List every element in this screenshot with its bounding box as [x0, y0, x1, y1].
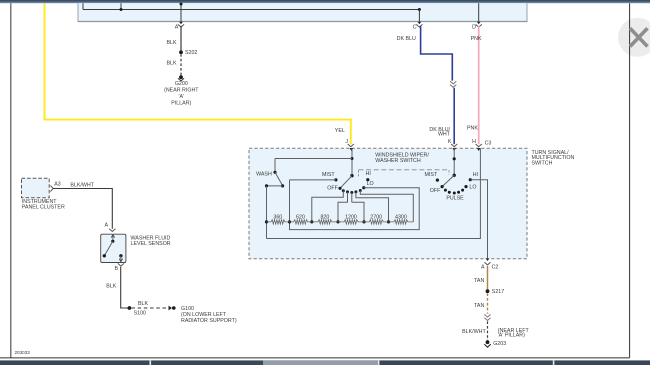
LO contact [464, 185, 467, 188]
junction node on bus [120, 8, 123, 11]
svg-text:MIST: MIST [322, 172, 335, 178]
page left border [10, 3, 12, 358]
svg-text:HI: HI [366, 171, 371, 177]
svg-text:DK BLU: DK BLU [397, 36, 416, 42]
MIST contact [334, 178, 337, 181]
svg-text:S100: S100 [134, 310, 146, 316]
close button X icon [630, 28, 648, 46]
svg-text:MIST: MIST [425, 172, 438, 178]
wiper mode switch pivot [350, 174, 353, 177]
svg-text:620: 620 [296, 214, 305, 220]
wire PNK from pin D [478, 26, 480, 144]
pulse switch pivot [453, 174, 456, 177]
svg-text:BLK/WHT: BLK/WHT [462, 329, 486, 335]
svg-text:TAN: TAN [474, 303, 484, 309]
svg-text:RADIATOR SUPPORT): RADIATOR SUPPORT) [181, 318, 237, 324]
bottom status bar [0, 360, 650, 365]
connector pin C [418, 22, 422, 25]
junction node [351, 157, 354, 160]
splice S202 [179, 50, 183, 54]
wire delay contact 5 to ladder end [360, 191, 413, 222]
instrument panel cluster box [22, 178, 50, 197]
splice S100 [127, 306, 131, 310]
svg-text:2700: 2700 [370, 214, 382, 220]
wire TAN [487, 266, 489, 289]
pulse switch arm to OFF [442, 175, 454, 186]
wire delay contact 1 to ladder [312, 191, 344, 222]
svg-text:WHT: WHT [438, 132, 451, 138]
connector pin H [476, 144, 482, 147]
svg-text:820: 820 [320, 214, 329, 220]
wire BLK/WHT dashed to ground [487, 321, 489, 340]
svg-text:A: A [481, 265, 485, 271]
svg-text:(NEAR RIGHT: (NEAR RIGHT [164, 87, 199, 93]
wire TAN dashed [487, 293, 489, 313]
wire DK BLU/WHT to pin K [453, 88, 455, 144]
HI contact [469, 178, 472, 181]
ground G203 [486, 340, 490, 344]
svg-text:TAN: TAN [474, 278, 484, 284]
wire BLK from pin A [180, 26, 182, 51]
resistor 4300 ohm [389, 220, 414, 224]
svg-text:A: A [104, 223, 108, 229]
svg-text:C2: C2 [492, 265, 499, 271]
svg-text:BLK: BLK [166, 40, 176, 46]
svg-text:D: D [472, 24, 476, 30]
sensor pin stub with arrow [112, 234, 114, 239]
connector pin J [348, 144, 354, 147]
svg-text:BLK: BLK [106, 284, 116, 290]
inline connector on DK BLU wire [450, 81, 456, 84]
svg-text:H: H [472, 139, 476, 145]
sensor contact to pin B [119, 254, 122, 257]
wire: vertical to pin C [418, 10, 420, 22]
svg-text:A: A [175, 24, 179, 30]
svg-text:'A': 'A' [179, 94, 185, 100]
wire: stub at junction [120, 3, 122, 9]
splice S217 [486, 289, 490, 293]
svg-text:J: J [345, 139, 348, 145]
HI contact [366, 178, 369, 181]
resistor 2700 ohm [364, 220, 389, 224]
junction node on resistor ladder [265, 220, 268, 223]
connector pin A of sensor [109, 229, 115, 232]
junction node ladder tap [288, 220, 291, 223]
power distribution box (top) [78, 3, 527, 21]
svg-text:C3: C3 [485, 140, 492, 146]
wire pin H to wash loop [267, 148, 481, 238]
svg-text:LEVEL SENSOR: LEVEL SENSOR [131, 241, 171, 247]
wire HI to pin A/C2 [470, 180, 487, 259]
wire MIST to net [290, 179, 336, 181]
wire: bus stub left [82, 3, 84, 9]
connector pin A [179, 22, 183, 25]
svg-text:PNK: PNK [471, 36, 482, 42]
delay position contacts [342, 189, 345, 192]
svg-text:4300: 4300 [395, 214, 407, 220]
wiper mode switch arm to OFF [340, 176, 352, 189]
washer fluid level sensor box [101, 234, 126, 262]
wire from pin K to pulse switch pivot [453, 148, 455, 175]
wire: vertical to pin D [478, 3, 480, 21]
svg-text:LO: LO [469, 185, 476, 191]
wire wash output [267, 185, 283, 187]
LO contact [362, 186, 365, 189]
svg-text:360: 360 [273, 214, 282, 220]
svg-text:BLK: BLK [138, 301, 148, 307]
svg-text:203033: 203033 [15, 350, 31, 355]
connector pin B of sensor [118, 263, 124, 266]
wire YEL [45, 3, 351, 144]
wire: horizontal bus inside box [83, 9, 419, 11]
top title bar [0, 0, 650, 2]
resistor 1200 ohm [338, 220, 364, 224]
connector pin A / C2 [486, 258, 490, 261]
wire branch to wash switch [275, 158, 352, 160]
wire BLK dashed to ground [180, 54, 182, 75]
wire LO/MIST net loop [290, 180, 420, 230]
resistor 820 ohm [312, 220, 338, 224]
wire from pin J to wiper switch pivot [351, 148, 353, 176]
svg-text:B: B [114, 266, 118, 272]
wire delay contact 4 to ladder [356, 192, 389, 222]
svg-text:PULSE: PULSE [446, 195, 464, 201]
mechanical linkage (dashed) [359, 169, 450, 171]
svg-text:G203: G203 [493, 341, 506, 347]
sensor switch arm [104, 241, 113, 256]
junction node at bar [180, 3, 183, 6]
wire BLK dashed to G100 [131, 307, 167, 309]
svg-text:PILLAR): PILLAR) [171, 101, 191, 107]
windshield wiper/washer switch box [249, 148, 527, 259]
connector pin D [477, 22, 481, 25]
svg-text:OFF: OFF [327, 185, 338, 191]
svg-text:G200: G200 [175, 81, 188, 87]
wash switch contact [273, 171, 276, 174]
ground G100 arrow [169, 306, 173, 311]
resistor 360 ohm [267, 220, 290, 224]
svg-text:LO: LO [367, 181, 374, 187]
svg-text:WASH: WASH [256, 171, 272, 177]
MIST contact [436, 179, 439, 182]
svg-text:YEL: YEL [335, 128, 345, 134]
OFF contact [441, 185, 444, 188]
wire delay contact 3 to ladder [352, 193, 364, 222]
svg-text:S202: S202 [185, 50, 197, 56]
wire delay contact 2 to ladder [338, 192, 348, 222]
svg-text:PNK: PNK [467, 125, 478, 131]
wash switch arm [275, 172, 283, 185]
junction node on bus to pin C [418, 8, 421, 11]
svg-text:HI: HI [473, 172, 478, 178]
svg-text:SWITCH: SWITCH [532, 160, 553, 166]
svg-text:BLK/WHT: BLK/WHT [70, 183, 94, 189]
ground G200 [179, 75, 183, 79]
svg-text:1200: 1200 [345, 214, 357, 220]
svg-text:C: C [413, 24, 417, 30]
svg-text:WASHER SWITCH: WASHER SWITCH [375, 158, 421, 164]
svg-text:OFF: OFF [430, 188, 441, 194]
connector A3 half-circle [50, 185, 53, 191]
wire BLK from sensor [121, 267, 128, 308]
page right border [629, 3, 631, 358]
close button circle [618, 18, 650, 57]
svg-text:K: K [448, 139, 452, 145]
pulse position contacts [444, 189, 447, 192]
svg-text:PANEL CLUSTER: PANEL CLUSTER [22, 204, 65, 210]
connector pin K [451, 144, 457, 147]
resistor 620 ohm [290, 220, 312, 224]
inline connector on TAN wire [484, 314, 490, 317]
wire: vertical to pin A [180, 3, 182, 21]
page bottom frame line [0, 357, 630, 359]
svg-text:S217: S217 [492, 289, 504, 295]
OFF contact [338, 187, 341, 190]
svg-text:A3: A3 [54, 181, 61, 187]
svg-text:BLK: BLK [166, 61, 176, 67]
wire DK BLU from pin C [421, 26, 453, 81]
svg-text:'A' PILLAR): 'A' PILLAR) [498, 333, 525, 339]
sensor switch common [111, 240, 114, 243]
